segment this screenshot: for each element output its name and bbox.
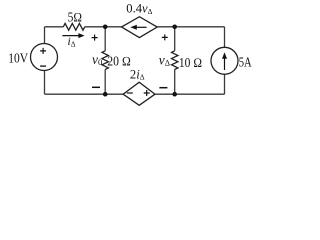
node dot top-left junction	[103, 25, 108, 30]
wire: bottom rail left of diamond	[45, 93, 124, 95]
minus inside bottom diamond	[127, 92, 133, 94]
V1 plus sign	[40, 48, 46, 54]
wire: 20ohm branch lower	[104, 70, 106, 95]
arrow inside top diamond (pointing left)	[136, 26, 147, 28]
current source I1 5A circle	[211, 47, 238, 74]
node dot bottom-right junction	[172, 92, 177, 97]
v-delta minus sign	[159, 87, 167, 89]
v-delta plus sign	[162, 34, 168, 40]
svg-text:vΔ: vΔ	[159, 52, 170, 67]
plus inside bottom diamond	[144, 90, 150, 96]
wire: 20ohm branch upper	[104, 27, 106, 51]
v0 minus sign	[92, 86, 100, 88]
arrow inside 5A source (pointing up)	[224, 58, 226, 71]
wire: left rail upper	[44, 27, 46, 44]
wire: right rail upper	[224, 27, 226, 48]
svg-text:10 Ω: 10 Ω	[179, 55, 202, 70]
voltage source V1 10V circle	[31, 44, 58, 71]
wire top-left horizontal	[45, 27, 225, 94]
resistor R2 20ohm zigzag	[102, 51, 108, 70]
V1 minus sign	[40, 65, 46, 67]
svg-text:v0: v0	[92, 52, 103, 67]
wire: bottom rail right of diamond	[155, 93, 225, 95]
resistor R3 10ohm zigzag	[172, 51, 178, 70]
current arrow i-delta	[62, 33, 84, 38]
wire: top rail between R1 and node B	[85, 26, 122, 28]
wire: left rail lower	[44, 71, 46, 95]
v0 plus sign	[92, 35, 98, 41]
svg-text:10V: 10V	[8, 51, 28, 66]
wire: top rail between diamond and top-right corner	[157, 26, 224, 28]
svg-text:0.4vΔ: 0.4vΔ	[126, 1, 152, 16]
svg-text:iΔ: iΔ	[68, 36, 76, 49]
wire: 10ohm branch upper	[174, 27, 176, 51]
wire: 10ohm branch lower	[174, 70, 176, 95]
node dot top-right junction	[172, 25, 177, 30]
svg-text:20 Ω: 20 Ω	[107, 53, 131, 68]
svg-text:2iΔ: 2iΔ	[130, 67, 145, 81]
svg-text:5A: 5A	[239, 54, 252, 69]
wire: right rail lower	[224, 74, 226, 94]
dependent current source 0.4v-delta diamond	[122, 17, 158, 38]
node dot bottom-left junction	[103, 92, 108, 97]
dependent voltage source 2i-delta diamond	[123, 82, 155, 105]
resistor R1 5ohm zigzag	[63, 23, 85, 30]
wire: top rail left segment	[45, 26, 64, 28]
svg-text:5Ω: 5Ω	[68, 10, 83, 25]
